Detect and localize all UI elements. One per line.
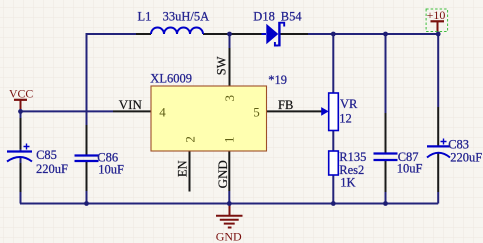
power VCC symbol: [9, 86, 33, 111]
pin number 4: [159, 105, 166, 120]
svg-text:1K: 1K: [340, 175, 355, 189]
wire top-left from VCC column to inductor: [87, 34, 137, 156]
svg-text:EN: EN: [176, 160, 190, 177]
wire inductor left pin: [136, 33, 151, 35]
svg-text:VCC: VCC: [9, 86, 33, 100]
pin 4 VIN stub: [113, 110, 151, 112]
svg-text:12: 12: [339, 111, 352, 125]
svg-text:B54: B54: [281, 10, 303, 24]
wire R135 to rail: [332, 175, 334, 204]
svg-text:33uH/5A: 33uH/5A: [163, 10, 210, 24]
wire output top rail: [308, 33, 438, 35]
svg-text:XL6009: XL6009: [150, 72, 192, 86]
capacitor C83 220uF electrolytic: [427, 138, 482, 165]
wire inductor to diode: [203, 33, 266, 35]
ground GND symbol: [216, 204, 243, 243]
svg-text:D18: D18: [253, 10, 275, 24]
potentiometer VR 12: [321, 93, 358, 131]
wire VR to R135: [332, 131, 334, 152]
svg-text:10uF: 10uF: [397, 162, 423, 176]
junction node at inductor-diode-SW: [227, 32, 232, 37]
capacitor C87 10uF: [374, 150, 423, 176]
junction node at R135 bottom: [331, 201, 336, 206]
junction node at VCC: [18, 109, 23, 114]
power +10 symbol: [426, 8, 448, 34]
svg-text:VIN: VIN: [119, 97, 143, 112]
svg-text:L1: L1: [138, 10, 152, 24]
capacitor C85 220uF electrolytic: [7, 144, 68, 176]
junction node at C87 top: [383, 32, 388, 37]
pin number 3: [222, 95, 237, 102]
pin number 2: [183, 136, 198, 143]
wire bottom rail: [20, 203, 438, 205]
pin 2 EN stub: [189, 151, 191, 192]
svg-text:1: 1: [222, 137, 237, 144]
junction node at VR top: [331, 32, 336, 37]
wire diode cathode: [280, 33, 308, 35]
wire C83 column: [437, 34, 439, 204]
svg-text:FB: FB: [278, 98, 293, 112]
svg-text:GND: GND: [216, 230, 242, 243]
wire VR column top: [332, 34, 334, 93]
svg-text:220uF: 220uF: [450, 150, 482, 164]
net label SW: [214, 56, 228, 75]
junction node at GND rail: [227, 201, 232, 206]
pin number 1: [222, 137, 237, 144]
wire C85 column: [20, 111, 22, 203]
pin number 5: [253, 105, 260, 120]
svg-text:220uF: 220uF: [36, 162, 68, 176]
svg-text:*19: *19: [268, 73, 287, 87]
net label *19: [268, 73, 287, 87]
svg-text:C85: C85: [36, 148, 57, 162]
capacitor C86 10uF: [75, 150, 124, 176]
wire C86 column: [86, 125, 88, 204]
diode D18 schottky: [253, 10, 302, 47]
svg-text:4: 4: [159, 105, 166, 120]
pin 5 FB wire to VR: [267, 110, 322, 112]
wire VCC to VIN: [21, 110, 114, 112]
svg-text:GND: GND: [215, 160, 230, 188]
svg-text:SW: SW: [214, 56, 228, 75]
net label GND: [215, 160, 230, 188]
pin 1 GND stub: [228, 151, 230, 204]
svg-text:VR: VR: [340, 97, 358, 111]
svg-text:10uF: 10uF: [98, 163, 124, 177]
junction node at +10 / C83: [436, 32, 441, 37]
pin 3 SW stub: [229, 34, 231, 86]
svg-text:+10: +10: [427, 8, 446, 22]
svg-text:5: 5: [253, 105, 260, 120]
net label EN: [176, 160, 190, 177]
junction node at C87 bottom: [383, 201, 388, 206]
net label FB: [278, 98, 293, 112]
svg-text:2: 2: [183, 136, 198, 143]
junction node at C86 bottom: [84, 201, 89, 206]
op-amp U1 XL6009 regulator body: [150, 72, 266, 151]
resistor R135 Res2 1K: [329, 150, 367, 189]
inductor L1: [138, 10, 210, 34]
svg-text:3: 3: [222, 95, 237, 102]
wire C87 column: [385, 34, 387, 204]
net label VIN: [119, 97, 143, 112]
